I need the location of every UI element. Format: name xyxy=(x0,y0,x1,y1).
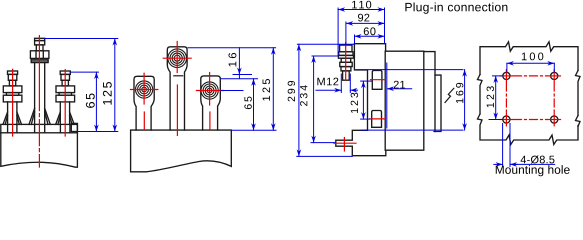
dimension 110 view3 xyxy=(338,8,384,55)
lug hole circles left view2 xyxy=(136,81,153,98)
upper mounting hole boss view3 xyxy=(372,71,382,90)
dim text 125 view1 xyxy=(103,82,112,105)
lug hole circles tall view2 xyxy=(168,49,187,68)
label Plug-in connection xyxy=(405,2,507,13)
housing outline view3 xyxy=(336,44,424,156)
hole callout text 4-O8.5 view4 xyxy=(521,155,555,163)
dimension 21 view3 xyxy=(387,63,412,128)
hole diameter callout 4-O8.5 view4 xyxy=(494,124,555,167)
mounting hole top-right view4 xyxy=(551,72,558,79)
dimension 65 view1 xyxy=(70,72,98,131)
lug hole circles right view2 xyxy=(201,82,218,99)
short stud left view1 xyxy=(3,71,22,124)
body with break line view1 xyxy=(1,133,78,167)
centerline stud left view1 xyxy=(12,69,14,136)
dim text 125 view2 xyxy=(262,79,270,101)
ring lug left view2 xyxy=(134,76,154,130)
ring lug center tall view2 xyxy=(167,47,187,130)
dimension 100 view4 xyxy=(507,63,554,72)
dim text 169 view3 xyxy=(456,83,463,103)
upper hole axis view3 xyxy=(371,79,386,81)
mounting hole bottom-right view4 xyxy=(551,116,558,123)
hole crosshairs view4 xyxy=(500,70,560,126)
short stud right view1 xyxy=(56,71,75,124)
dim text 234 view3 xyxy=(300,85,307,106)
crosshair left lug view2 xyxy=(131,73,158,129)
break mark near 169 view3 xyxy=(445,88,454,102)
dimension 123 view3 xyxy=(361,81,372,119)
M12 stud view3 xyxy=(338,45,353,80)
dimension 125 view1 xyxy=(45,39,118,132)
label Mounting hole view4 xyxy=(496,165,570,176)
crosshair tall lug view2 xyxy=(163,42,191,136)
dim text 65 view2 xyxy=(244,97,251,110)
lower hole axis view3 xyxy=(370,118,386,120)
foot hole crosshair view3 xyxy=(334,138,356,152)
thread callout M12 view3 xyxy=(316,74,358,93)
dim text 16 view2 xyxy=(228,53,236,67)
crosshair right lug view2 xyxy=(196,73,223,130)
rear step block view3 xyxy=(434,75,441,131)
dimension 65 view2 xyxy=(221,79,258,131)
mounting hole top-left view4 xyxy=(503,72,510,79)
ring lug right view2 xyxy=(201,76,221,130)
dimension 60 view3 xyxy=(355,35,385,43)
body with break line view2 xyxy=(131,130,232,172)
tall stud center view1 xyxy=(29,38,50,124)
dimension 125 view2 xyxy=(231,48,276,131)
dimension 169 view3 xyxy=(356,70,465,131)
broken outline plate view4 xyxy=(478,42,581,145)
internal housing edge view3 xyxy=(384,51,386,150)
dim text 100 view4 xyxy=(522,53,543,61)
dim text 123 view3 xyxy=(351,93,358,113)
base plate view1 xyxy=(1,123,78,132)
centerline tall stud view1 xyxy=(38,36,40,167)
dimension 92 view3 xyxy=(346,22,385,45)
rear mounting plate view3 xyxy=(424,52,435,132)
centerline pattern view4 xyxy=(506,76,554,120)
thread label M12 view3 xyxy=(317,78,338,86)
lower mounting hole boss view3 xyxy=(372,111,382,128)
dimension 16 view2 xyxy=(188,48,276,79)
dimension 299 view3 xyxy=(297,44,354,156)
dim text 123 view4 xyxy=(487,86,494,107)
dimension 123 view4 xyxy=(489,76,502,120)
dim text 65 view1 xyxy=(86,93,95,107)
dim text 299 view3 xyxy=(288,81,295,101)
centerline stud right view1 xyxy=(64,70,66,136)
dim text 92 view3 xyxy=(358,14,369,22)
dim text 110 view3 xyxy=(352,1,371,9)
mounting hole bottom-left view4 xyxy=(503,116,510,123)
crimp mark tall lug view2 xyxy=(174,75,183,77)
dim text 21 view3 xyxy=(394,81,405,89)
M12 stud centerline view3 xyxy=(345,43,347,81)
dim text 60 view3 xyxy=(364,27,376,35)
dimension 234 view3 xyxy=(311,56,338,143)
